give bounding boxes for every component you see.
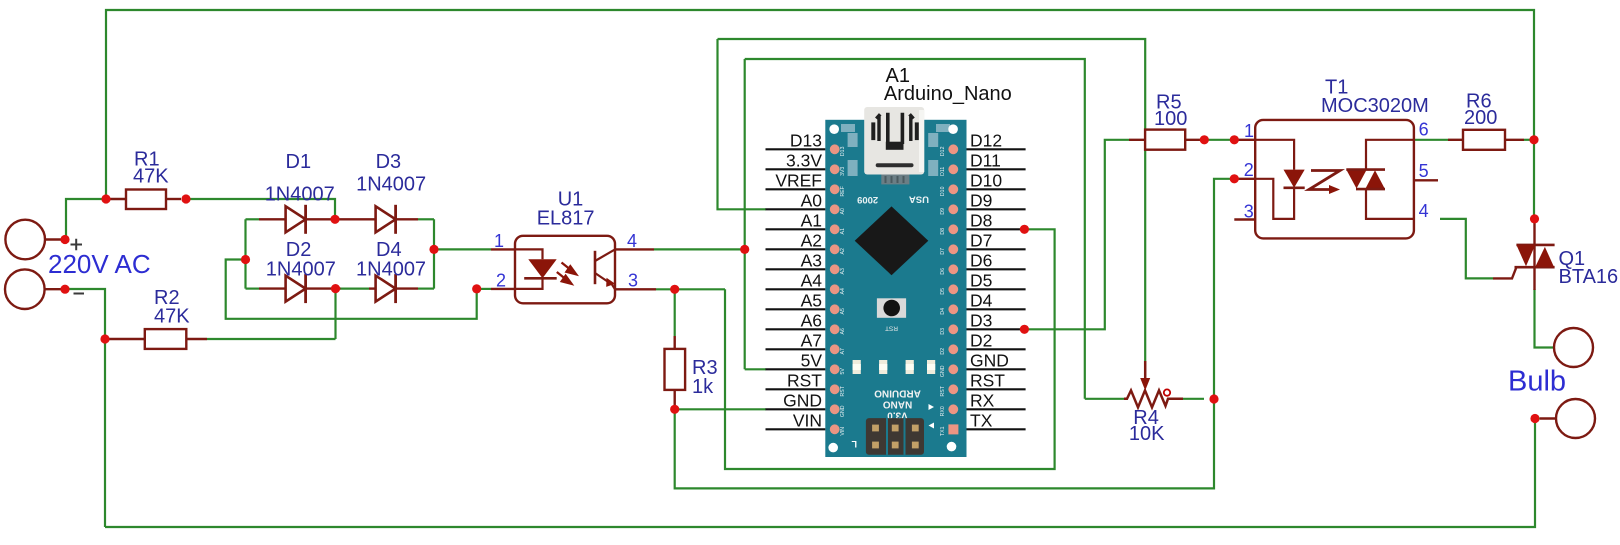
resistor R2	[109, 338, 145, 340]
wire T1 pin4 to triac gate	[1440, 219, 1493, 279]
wire U1 pin3 row	[656, 288, 725, 290]
svg-text:47K: 47K	[154, 306, 190, 328]
AC source terminal + circle	[5, 220, 45, 260]
wire R3 bottom to GND pin	[675, 408, 766, 410]
svg-text:1: 1	[494, 231, 504, 251]
svg-text:A4: A4	[801, 270, 823, 290]
node U1 pin4 5V junction	[740, 245, 749, 254]
wire AC line column to triac	[1533, 140, 1535, 219]
T1 internal triac	[1346, 170, 1366, 189]
AC source terminal - circle	[5, 269, 45, 309]
wire U1 pin2 stub	[477, 288, 491, 290]
node D3 pin junction	[1020, 325, 1029, 334]
svg-text:EL817: EL817	[537, 208, 595, 230]
svg-text:A2: A2	[801, 230, 822, 250]
R4 wiper arrow	[1144, 361, 1147, 380]
Arduino MCU chip	[855, 206, 929, 275]
wire R5 right to T1 pin1	[1204, 139, 1234, 141]
U1 phototransistor	[594, 251, 597, 284]
svg-text:VIN: VIN	[793, 410, 822, 430]
wire top AC line rail	[106, 10, 1534, 199]
svg-text:D6: D6	[970, 250, 992, 270]
wire A0 net vertical	[718, 39, 767, 209]
node triac top junction	[1530, 214, 1539, 223]
node AC+ terminal	[60, 235, 69, 244]
svg-text:D3: D3	[376, 151, 402, 173]
diode D1	[259, 218, 286, 220]
Arduino right pin labels	[970, 130, 1009, 430]
svg-text:Bulb: Bulb	[1508, 366, 1566, 398]
resistor R5	[1129, 139, 1145, 141]
wire 5V rail to R4 left end	[1085, 398, 1124, 400]
wire triac to bulb top terminal	[1535, 289, 1556, 348]
wire R1 output to D1-D3 junction	[186, 199, 335, 219]
node T1 pin2 junction	[1230, 174, 1239, 183]
svg-text:D8: D8	[940, 228, 946, 235]
Arduino left pin lines	[766, 149, 826, 429]
svg-text:2: 2	[496, 271, 506, 291]
svg-text:D5: D5	[970, 270, 992, 290]
svg-text:1k: 1k	[692, 376, 714, 398]
svg-text:220V AC: 220V AC	[48, 249, 151, 279]
svg-text:D3: D3	[970, 310, 992, 330]
wire U1 pin4 to 5V net junction	[654, 248, 745, 250]
diode D2	[259, 287, 286, 289]
svg-text:D13: D13	[790, 130, 822, 150]
node R5 right junction A	[1200, 135, 1209, 144]
svg-text:D6: D6	[940, 268, 946, 275]
wire bulb bottom terminal lead	[1535, 417, 1540, 419]
svg-text:5V: 5V	[801, 350, 823, 370]
svg-text:ARDUINO: ARDUINO	[874, 387, 921, 398]
svg-text:A2: A2	[840, 248, 846, 254]
svg-text:REF: REF	[840, 186, 846, 196]
wire 5V net vertical	[744, 59, 746, 369]
svg-text:D7: D7	[940, 248, 946, 255]
node bridge left column junction	[241, 255, 250, 264]
svg-text:RST: RST	[787, 370, 822, 390]
node R6 right junction	[1529, 135, 1538, 144]
svg-text:A3: A3	[840, 268, 846, 274]
svg-text:D1: D1	[286, 151, 312, 173]
svg-text:RST: RST	[885, 325, 898, 332]
microcontroller A1 Arduino_Nano	[825, 107, 966, 457]
svg-text:5: 5	[1419, 161, 1429, 181]
transistor T1 optotriac MOC3020M body	[1234, 139, 1255, 141]
wire bridge bottom row right segment	[418, 288, 434, 290]
svg-text:1: 1	[1244, 121, 1254, 141]
svg-text:2: 2	[1244, 160, 1254, 180]
svg-text:1N4007: 1N4007	[356, 258, 426, 280]
node R1 left junction	[101, 194, 110, 203]
svg-text:D12: D12	[940, 146, 946, 156]
svg-text:RX: RX	[970, 390, 995, 410]
svg-text:200: 200	[1464, 107, 1497, 129]
svg-text:TX1: TX1	[940, 426, 946, 436]
resistor R1	[107, 198, 126, 200]
label A1 Arduino_Nano	[884, 65, 1012, 105]
svg-text:NANO: NANO	[883, 398, 913, 409]
Arduino silkscreen text	[874, 387, 921, 420]
wire R4 right end to T1 pin2	[1214, 179, 1234, 399]
minus sign marker	[74, 293, 85, 295]
svg-text:A5: A5	[840, 308, 846, 314]
node U1 pin2 junction	[472, 284, 481, 293]
svg-text:A3: A3	[801, 250, 822, 270]
node bridge output junction	[429, 245, 438, 254]
Arduino RST button	[877, 298, 906, 318]
Arduino ICSP header	[866, 418, 924, 455]
svg-text:A1: A1	[840, 228, 846, 234]
svg-text:D2: D2	[970, 330, 992, 350]
wire 5V pin stub	[745, 368, 766, 370]
node D2-D4 junction	[331, 284, 340, 293]
svg-text:A4: A4	[840, 288, 846, 294]
svg-text:D11: D11	[940, 167, 946, 176]
wire R2 row	[207, 338, 336, 340]
wire R3 top lead	[674, 289, 676, 336]
node R3 bottom GND junction	[670, 405, 679, 414]
node D8 pin junction	[1020, 225, 1029, 234]
svg-text:VIN: VIN	[840, 427, 846, 436]
svg-text:RST: RST	[940, 385, 946, 396]
svg-text:D5: D5	[940, 288, 946, 295]
T1 pin 5 stub	[1414, 179, 1438, 181]
U1 internal LED	[515, 249, 543, 259]
svg-text:D10: D10	[970, 170, 1002, 190]
svg-text:USA: USA	[909, 194, 929, 205]
potentiometer R4 10K	[1124, 390, 1183, 407]
U1 light arrows	[557, 263, 576, 284]
wire A0 net top rail to R4 wiper	[718, 39, 1146, 361]
svg-text:VREF: VREF	[775, 170, 822, 190]
svg-text:A0: A0	[840, 208, 846, 214]
svg-text:4: 4	[627, 231, 637, 251]
wire bottom return rail to bulb	[105, 419, 1535, 528]
svg-text:GND: GND	[940, 365, 946, 377]
svg-text:D12: D12	[970, 130, 1002, 150]
svg-text:1N4007: 1N4007	[356, 174, 426, 196]
svg-text:GND: GND	[970, 350, 1009, 370]
wire bridge right column	[433, 219, 435, 288]
node D1-D3 junction	[330, 215, 339, 224]
svg-text:D11: D11	[970, 150, 1001, 170]
resistor R6	[1448, 139, 1463, 141]
node AC- terminal	[60, 285, 69, 294]
wire bridge output to U1 pin1	[434, 248, 491, 250]
svg-text:3: 3	[628, 271, 638, 291]
wire GND rail to R4 right / T1 pin2	[675, 399, 1214, 488]
svg-text:GND: GND	[783, 390, 822, 410]
T1 coupling symbol	[1309, 171, 1340, 190]
wire T1 pin6 to R6	[1414, 139, 1448, 141]
wire D3 pin to R5	[1024, 140, 1129, 329]
wire bridge left column to U1 pin2	[226, 260, 477, 319]
svg-text:A5: A5	[801, 290, 822, 310]
R4 wiper terminal circle	[1164, 389, 1170, 395]
diode D4	[369, 287, 376, 289]
Arduino left pin labels	[775, 130, 822, 430]
svg-text:10K: 10K	[1129, 423, 1165, 445]
Arduino tiny pad name silkscreen	[840, 146, 946, 436]
plus sign marker	[71, 239, 83, 250]
node R2 left junction	[100, 334, 109, 343]
op-amp U1 optocoupler EL817 body	[491, 248, 515, 250]
svg-text:D4: D4	[940, 308, 946, 315]
svg-text:D13: D13	[840, 146, 846, 156]
Arduino 2009 USA silkscreen	[857, 194, 929, 205]
wire 5V net top rail	[745, 59, 1085, 399]
wire R2 output to D2-D4 junction	[334, 289, 336, 339]
T1 pin 3 stub	[1234, 218, 1255, 220]
svg-text:A7: A7	[840, 348, 846, 354]
svg-text:TX: TX	[970, 410, 993, 430]
wire U1 pin3 net to D8	[725, 229, 1055, 469]
svg-text:RX0: RX0	[940, 406, 946, 416]
svg-text:A0: A0	[801, 190, 823, 210]
wire bridge bottom row left segment	[246, 288, 260, 290]
diode D3	[335, 218, 376, 220]
svg-text:L: L	[851, 439, 857, 449]
node R3 top junction	[670, 285, 679, 294]
bulb bottom terminal circle	[1540, 417, 1558, 419]
svg-text:D8: D8	[970, 210, 992, 230]
node bulb bottom junction	[1530, 414, 1539, 423]
svg-text:GND: GND	[840, 405, 846, 417]
svg-text:D7: D7	[970, 230, 992, 250]
Arduino SMD resistors row	[853, 360, 861, 374]
svg-text:2009: 2009	[857, 194, 878, 205]
wire AC- terminal riser	[65, 289, 105, 527]
svg-text:A1: A1	[801, 210, 822, 230]
svg-text:MOC3020M: MOC3020M	[1321, 95, 1429, 117]
svg-text:5V: 5V	[840, 368, 846, 375]
svg-text:D9: D9	[940, 208, 946, 215]
AC source - lead	[45, 288, 65, 290]
wire bridge top row right segment	[418, 218, 434, 220]
svg-text:1N4007: 1N4007	[265, 183, 335, 205]
transistor Q1 triac BTA16	[1533, 219, 1535, 245]
svg-text:A6: A6	[801, 310, 822, 330]
wire R6 right to AC line column	[1524, 139, 1534, 141]
wire bridge bottom row mid segment	[341, 288, 370, 290]
svg-text:BTA16: BTA16	[1559, 266, 1619, 288]
svg-text:D10: D10	[940, 186, 946, 196]
bulb top terminal circle	[1555, 346, 1560, 348]
node R1 right junction	[181, 194, 190, 203]
AC source + lead	[45, 238, 65, 240]
svg-text:1N4007: 1N4007	[266, 258, 336, 280]
svg-text:6: 6	[1419, 120, 1429, 140]
Arduino right pin lines	[967, 149, 1026, 429]
wire AC+ terminal to R1 junction	[66, 199, 106, 240]
svg-text:Arduino_Nano: Arduino_Nano	[884, 83, 1012, 105]
svg-text:D3: D3	[940, 328, 946, 335]
svg-text:RST: RST	[840, 385, 846, 396]
T1 internal LED	[1255, 140, 1294, 170]
svg-text:D2: D2	[940, 348, 946, 355]
svg-text:3: 3	[1244, 202, 1254, 222]
wire bridge top row left segment	[246, 218, 260, 220]
svg-text:D9: D9	[970, 190, 992, 210]
node R5 right junction B	[1230, 135, 1239, 144]
svg-text:3.3V: 3.3V	[786, 150, 822, 170]
svg-text:RST: RST	[970, 370, 1005, 390]
svg-text:100: 100	[1154, 108, 1187, 130]
svg-text:4: 4	[1419, 201, 1429, 221]
svg-text:3V3: 3V3	[840, 167, 846, 176]
svg-text:A6: A6	[840, 328, 846, 334]
resistor R3	[674, 336, 676, 349]
node R4 right junction	[1209, 394, 1218, 403]
svg-text:47K: 47K	[133, 166, 169, 188]
Q1 gate lead	[1493, 267, 1516, 278]
wire bridge left column	[244, 219, 246, 288]
svg-text:A7: A7	[801, 330, 822, 350]
svg-text:D4: D4	[970, 290, 993, 310]
